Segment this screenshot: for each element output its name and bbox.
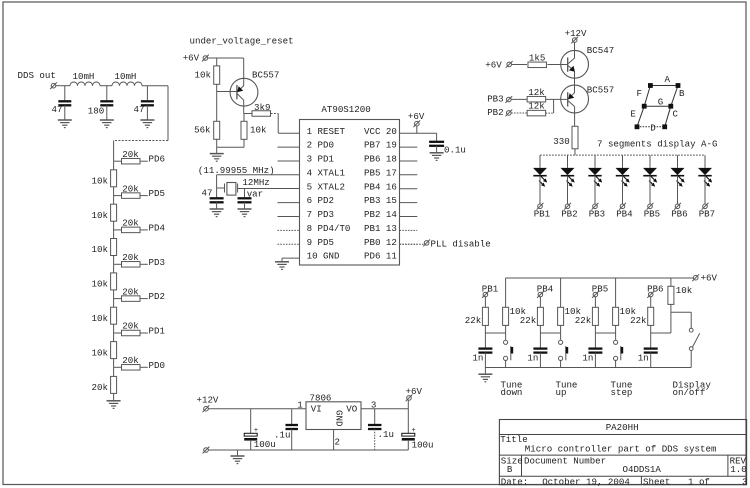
wire xyxy=(244,113,253,115)
segment G xyxy=(644,105,671,107)
wire xyxy=(277,114,279,134)
svg-text:22k: 22k xyxy=(465,315,482,326)
wire (output) xyxy=(361,408,408,410)
ground xyxy=(140,119,154,121)
wire xyxy=(650,297,652,308)
segment corner node xyxy=(642,104,646,108)
svg-text:down: down xyxy=(501,387,523,398)
capacitor C .1u (output) xyxy=(374,409,376,424)
wire (base Q2) xyxy=(548,64,568,66)
wire xyxy=(250,440,252,450)
svg-text:22k: 22k xyxy=(520,315,537,326)
resistor 10k (ladder) xyxy=(111,342,117,359)
wire (pin stub) xyxy=(278,160,300,162)
ground xyxy=(478,373,492,375)
wire xyxy=(113,221,115,230)
wire (pin stub) xyxy=(278,243,300,245)
wire xyxy=(416,126,418,133)
wire (PB0 pin 12) xyxy=(400,243,425,245)
ground xyxy=(100,119,114,121)
svg-text:20k: 20k xyxy=(122,355,139,366)
wire xyxy=(113,230,115,239)
title block divider xyxy=(727,455,729,476)
terminal +6V xyxy=(506,61,513,68)
capacitor C 0.1u xyxy=(429,141,444,143)
wire xyxy=(113,141,115,162)
svg-text:GND: GND xyxy=(334,410,345,427)
resistor R 3k9 xyxy=(252,111,271,117)
wire xyxy=(140,263,148,265)
svg-text:PD5: PD5 xyxy=(149,188,165,199)
wire xyxy=(511,98,527,100)
svg-text:BC547: BC547 xyxy=(587,45,614,56)
svg-text:PB4 16: PB4 16 xyxy=(364,181,397,192)
resistor 10k (ladder) xyxy=(111,204,117,221)
svg-text:10mH: 10mH xyxy=(115,71,137,82)
svg-text:3: 3 xyxy=(742,476,747,487)
wire (emitter Q2 to emitter Q3) xyxy=(574,72,576,94)
svg-text:Sheet: Sheet xyxy=(643,476,670,487)
segment B xyxy=(671,86,678,107)
wire xyxy=(539,297,541,308)
wire xyxy=(114,195,122,197)
terminal PB4 xyxy=(619,203,626,210)
svg-text:1: 1 xyxy=(297,400,303,411)
svg-text:PB3: PB3 xyxy=(589,209,605,220)
svg-text:9 PD5: 9 PD5 xyxy=(307,237,334,248)
wire (VCC pin 20) xyxy=(400,132,437,134)
svg-text:20k: 20k xyxy=(122,321,139,332)
svg-text:B: B xyxy=(679,88,685,99)
resistor 10k (ladder) xyxy=(111,273,117,290)
resistor R 10k (pull-up) xyxy=(558,307,564,325)
capacitor C 100u (output electrolytic) xyxy=(402,433,415,436)
wire xyxy=(690,351,692,368)
wire (node) xyxy=(595,332,615,334)
LED D7 xyxy=(704,155,706,168)
segment D xyxy=(637,126,665,128)
svg-text:PB1 13: PB1 13 xyxy=(364,223,397,234)
svg-text:12MHz: 12MHz xyxy=(242,177,269,188)
svg-text:100u: 100u xyxy=(412,439,434,450)
svg-text:PB3: PB3 xyxy=(487,93,503,104)
wire xyxy=(113,264,115,273)
wire xyxy=(539,333,541,348)
resistor R 22k xyxy=(592,307,598,325)
terminal +6V xyxy=(692,274,699,281)
terminal PB5 xyxy=(647,203,654,210)
wire xyxy=(106,105,108,119)
segment corner node xyxy=(635,125,639,129)
resistor R 330 xyxy=(572,126,578,149)
LED D5 xyxy=(649,155,651,168)
title block frame xyxy=(499,420,746,485)
svg-text:PB2 14: PB2 14 xyxy=(364,209,397,220)
inductor L2 10mH xyxy=(112,82,142,86)
wire xyxy=(670,278,672,286)
resistor R 10k (collector load) xyxy=(241,121,247,139)
wire xyxy=(216,202,218,208)
wire xyxy=(677,176,679,204)
wire xyxy=(113,367,115,376)
wire xyxy=(539,176,541,204)
wire xyxy=(140,366,148,368)
terminal +6V xyxy=(413,120,420,127)
svg-text:20k: 20k xyxy=(122,149,139,160)
svg-text:PB6 18: PB6 18 xyxy=(364,154,397,165)
svg-text:+6V: +6V xyxy=(408,111,425,122)
svg-text:PB5: PB5 xyxy=(644,209,660,220)
svg-text:.1u: .1u xyxy=(274,429,290,440)
ground xyxy=(231,455,245,457)
svg-text:12k: 12k xyxy=(528,101,545,112)
resistor R 10k (pull-up) xyxy=(613,307,619,325)
push button switch xyxy=(559,340,569,360)
svg-text:E: E xyxy=(630,108,635,119)
svg-text:PB2: PB2 xyxy=(487,107,503,118)
svg-text:C: C xyxy=(673,108,679,119)
resistor 20k (PD2 tap) xyxy=(122,296,141,302)
svg-text:Micro controller part of DDS s: Micro controller part of DDS system xyxy=(525,444,717,455)
svg-text:PB5 17: PB5 17 xyxy=(364,167,397,178)
wire xyxy=(216,175,218,198)
svg-text:20k: 20k xyxy=(92,382,109,393)
title block divider xyxy=(640,476,642,485)
svg-text:October 19, 2004: October 19, 2004 xyxy=(542,476,630,487)
wire xyxy=(690,312,692,328)
title block line xyxy=(499,434,746,436)
svg-text:10k: 10k xyxy=(195,70,212,81)
wire xyxy=(113,256,115,265)
svg-text:1n: 1n xyxy=(638,352,649,363)
terminal +6V xyxy=(202,55,209,62)
segment corner node xyxy=(676,84,680,88)
wire (XTAL2 pin 5) xyxy=(238,188,300,190)
wire xyxy=(113,299,115,308)
svg-text:8 PD4/T0: 8 PD4/T0 xyxy=(307,223,351,234)
svg-text:on/off: on/off xyxy=(673,387,706,398)
svg-text:+: + xyxy=(412,427,416,435)
terminal PB3 xyxy=(505,96,512,103)
segment C xyxy=(665,106,671,127)
resistor 10k (ladder) xyxy=(111,239,117,256)
wire xyxy=(113,187,115,196)
svg-text:PD6: PD6 xyxy=(149,154,165,165)
svg-text:+6V: +6V xyxy=(701,272,718,283)
LED D2 xyxy=(567,155,569,168)
wire xyxy=(208,57,244,59)
wire xyxy=(64,86,66,101)
svg-text:3 PD1: 3 PD1 xyxy=(307,154,335,165)
wire xyxy=(594,333,596,348)
svg-text:7 segments display A-G: 7 segments display A-G xyxy=(597,139,717,150)
wire (pin stub) xyxy=(400,202,418,204)
svg-text:up: up xyxy=(556,387,567,398)
transistor Q1 BC557 (PNP) xyxy=(230,78,258,106)
svg-text:VI: VI xyxy=(311,404,322,415)
svg-text:+: + xyxy=(254,427,258,435)
wire xyxy=(217,146,244,148)
svg-text:56k: 56k xyxy=(194,125,211,136)
svg-text:10k: 10k xyxy=(92,279,109,290)
terminal +12V xyxy=(203,405,210,412)
terminal +6V xyxy=(406,395,413,402)
svg-text:47: 47 xyxy=(202,188,213,199)
wire xyxy=(560,325,562,339)
wire (XTAL1 pin 4) xyxy=(217,174,300,176)
wire xyxy=(546,112,554,114)
IC U1 AT90S1200 xyxy=(300,120,400,266)
svg-text:4 XTAL1: 4 XTAL1 xyxy=(307,167,346,178)
svg-text:VO: VO xyxy=(346,404,357,415)
wire xyxy=(114,366,122,368)
wire xyxy=(216,84,218,91)
wire xyxy=(244,202,246,208)
segment corner node xyxy=(649,84,653,88)
inductor L1 10mH xyxy=(70,82,100,86)
wire xyxy=(407,400,409,433)
wire xyxy=(142,85,168,87)
wire (pin stub) xyxy=(278,229,300,231)
wire xyxy=(140,332,148,334)
svg-text:+6V: +6V xyxy=(485,59,502,70)
terminal PB5 xyxy=(592,291,599,298)
wire (to RESET pin 1) xyxy=(278,132,299,134)
terminal +12V xyxy=(571,37,578,44)
wire xyxy=(574,149,576,155)
wire xyxy=(56,85,70,87)
svg-text:PD2: PD2 xyxy=(149,291,165,302)
capacitor C 47 (XTAL1) xyxy=(210,197,224,199)
ground xyxy=(430,152,444,154)
svg-text:47: 47 xyxy=(134,104,145,115)
title block line xyxy=(499,475,746,477)
svg-text:VCC 20: VCC 20 xyxy=(364,126,397,137)
wire xyxy=(615,360,617,368)
wire (collector Q3) xyxy=(574,106,576,126)
segment A xyxy=(650,85,678,87)
svg-text:1k5: 1k5 xyxy=(529,53,545,64)
svg-text:20k: 20k xyxy=(122,252,139,263)
svg-text:Title: Title xyxy=(500,434,527,445)
wire xyxy=(113,393,115,400)
ground xyxy=(58,119,72,121)
svg-text:PD6 11: PD6 11 xyxy=(364,251,397,262)
svg-text:PB6: PB6 xyxy=(671,209,687,220)
svg-text:22k: 22k xyxy=(630,315,647,326)
push button switch xyxy=(504,340,514,360)
wire (emitter to +6V rail) xyxy=(243,58,245,86)
wire (LED bus) xyxy=(540,154,705,156)
resistor R 10k (display pull-up) xyxy=(668,286,674,304)
ground xyxy=(275,261,289,263)
wire (pin stub) xyxy=(400,216,418,218)
wire xyxy=(670,304,672,312)
terminal PB2 xyxy=(505,110,512,117)
wire xyxy=(216,139,218,147)
wire xyxy=(146,86,148,101)
svg-text:10k: 10k xyxy=(250,125,267,136)
svg-text:20k: 20k xyxy=(122,218,139,229)
capacitor C 1n xyxy=(533,347,547,349)
svg-text:10mH: 10mH xyxy=(73,71,95,82)
svg-text:10k: 10k xyxy=(92,347,109,358)
capacitor C3 47 xyxy=(141,100,154,102)
wire xyxy=(407,440,409,450)
svg-text:PB7 19: PB7 19 xyxy=(364,140,397,151)
svg-text:BC557: BC557 xyxy=(587,85,614,96)
ground xyxy=(210,153,224,155)
wire xyxy=(216,147,218,153)
svg-text:DDS out: DDS out xyxy=(18,70,56,81)
capacitor C1 47 xyxy=(58,100,71,102)
svg-text:PB1: PB1 xyxy=(534,209,551,220)
wire xyxy=(113,161,115,170)
wire xyxy=(291,429,293,450)
wire xyxy=(100,85,112,87)
svg-text:180: 180 xyxy=(88,106,104,117)
svg-text:PD1: PD1 xyxy=(149,326,166,337)
wire xyxy=(650,325,652,333)
wire xyxy=(374,429,376,450)
segment F xyxy=(644,86,650,107)
wire xyxy=(243,114,245,122)
wire xyxy=(271,113,279,115)
svg-text:10k: 10k xyxy=(92,176,109,187)
wire (bottom rail) xyxy=(208,449,408,451)
svg-text:1.0: 1.0 xyxy=(730,464,746,475)
wire xyxy=(106,86,108,101)
svg-text:10k: 10k xyxy=(92,244,109,255)
wire (pin stub) xyxy=(400,146,418,148)
LED D1 xyxy=(539,155,541,168)
transistor Q2 BC547 (NPN) xyxy=(561,50,589,78)
wire xyxy=(217,187,225,189)
wire xyxy=(114,160,122,162)
wire xyxy=(436,133,438,141)
wire (pin stub) xyxy=(400,243,418,245)
resistor R 10k (base divider top) xyxy=(214,66,220,84)
svg-text:PD0: PD0 xyxy=(149,360,165,371)
svg-text:PD4: PD4 xyxy=(149,222,166,233)
terminal PB6 xyxy=(674,203,681,210)
wire xyxy=(281,258,283,261)
wire (GND pin 10) xyxy=(282,257,300,259)
title block line xyxy=(499,454,746,456)
transistor Q3 BC557 (PNP) xyxy=(561,85,589,113)
terminal (return) xyxy=(203,447,210,454)
wire (pin 2 to rail) xyxy=(333,430,335,451)
wire xyxy=(167,86,169,141)
wire (base Q3) xyxy=(546,98,568,100)
wire (pin stub) xyxy=(278,216,300,218)
wire xyxy=(505,360,507,368)
svg-text:PD3: PD3 xyxy=(149,257,165,268)
wire (node) xyxy=(485,332,505,334)
svg-text:Document Number: Document Number xyxy=(524,455,606,466)
wire xyxy=(140,160,148,162)
wire (+6V bus) xyxy=(506,277,694,279)
svg-text:G: G xyxy=(658,96,663,107)
terminal PB2 xyxy=(564,203,571,210)
capacitor C var (XTAL2) xyxy=(238,197,252,199)
wire xyxy=(114,263,122,265)
resistor R 22k xyxy=(482,307,488,325)
wire xyxy=(216,58,218,66)
svg-text:1n: 1n xyxy=(527,352,538,363)
svg-text:var: var xyxy=(247,189,263,200)
title block divider xyxy=(521,455,523,476)
svg-text:B: B xyxy=(507,464,513,475)
svg-text:1n: 1n xyxy=(582,352,593,363)
resistor R 22k xyxy=(537,307,543,325)
svg-text:PB4: PB4 xyxy=(616,209,633,220)
terminal PB3 xyxy=(592,203,599,210)
wire xyxy=(113,290,115,299)
resistor R 12k (PB3) xyxy=(527,96,546,102)
resistor 20k (PD6 tap) xyxy=(122,158,141,164)
svg-text:.1u: .1u xyxy=(378,429,394,440)
svg-text:10k: 10k xyxy=(92,210,109,221)
wire xyxy=(671,311,691,313)
svg-text:22k: 22k xyxy=(575,315,592,326)
svg-text:0.1u: 0.1u xyxy=(444,144,466,155)
svg-text:20k: 20k xyxy=(122,286,139,297)
wire xyxy=(216,92,218,122)
wire xyxy=(560,278,562,307)
terminal PB1 xyxy=(482,291,489,298)
svg-text:2 PD0: 2 PD0 xyxy=(307,140,334,151)
svg-text:PA20HH: PA20HH xyxy=(606,422,639,433)
wire xyxy=(594,297,596,308)
wire xyxy=(553,99,555,113)
wire xyxy=(484,353,486,368)
wire xyxy=(146,105,148,119)
resistor R 22k xyxy=(648,307,654,325)
svg-text:F: F xyxy=(637,88,642,99)
svg-text:A: A xyxy=(665,74,671,85)
wire (pin stub) xyxy=(400,229,418,231)
wire xyxy=(237,450,239,455)
wire xyxy=(243,139,245,147)
wire xyxy=(594,176,596,204)
resistor 20k (PD5 tap) xyxy=(122,193,141,199)
resistor 20k (ladder bottom) xyxy=(111,376,117,393)
wire (pin stub) xyxy=(278,146,300,148)
wire xyxy=(114,332,122,334)
resistor 10k (ladder) xyxy=(111,170,117,187)
resistor 20k (PD3 tap) xyxy=(122,262,141,268)
svg-text:1 of: 1 of xyxy=(688,476,710,487)
wire (node) xyxy=(540,332,560,334)
wire xyxy=(113,333,115,342)
wire xyxy=(512,64,527,66)
capacitor C .1u (input) xyxy=(291,409,293,424)
resistor 20k (PD4 tap) xyxy=(122,227,141,233)
svg-text:D: D xyxy=(650,123,656,134)
resistor 20k (PD0 tap) xyxy=(122,365,141,371)
svg-text:PB7: PB7 xyxy=(699,209,715,220)
svg-text:10k: 10k xyxy=(92,313,109,324)
wire xyxy=(484,368,486,374)
svg-text:O4DDS1A: O4DDS1A xyxy=(623,464,662,475)
svg-text:+6V: +6V xyxy=(183,53,200,64)
wire xyxy=(650,333,652,348)
wire xyxy=(649,176,651,204)
svg-text:3k9: 3k9 xyxy=(254,102,270,113)
terminal PB4 xyxy=(537,291,544,298)
resistor 20k (PD1 tap) xyxy=(122,330,141,336)
